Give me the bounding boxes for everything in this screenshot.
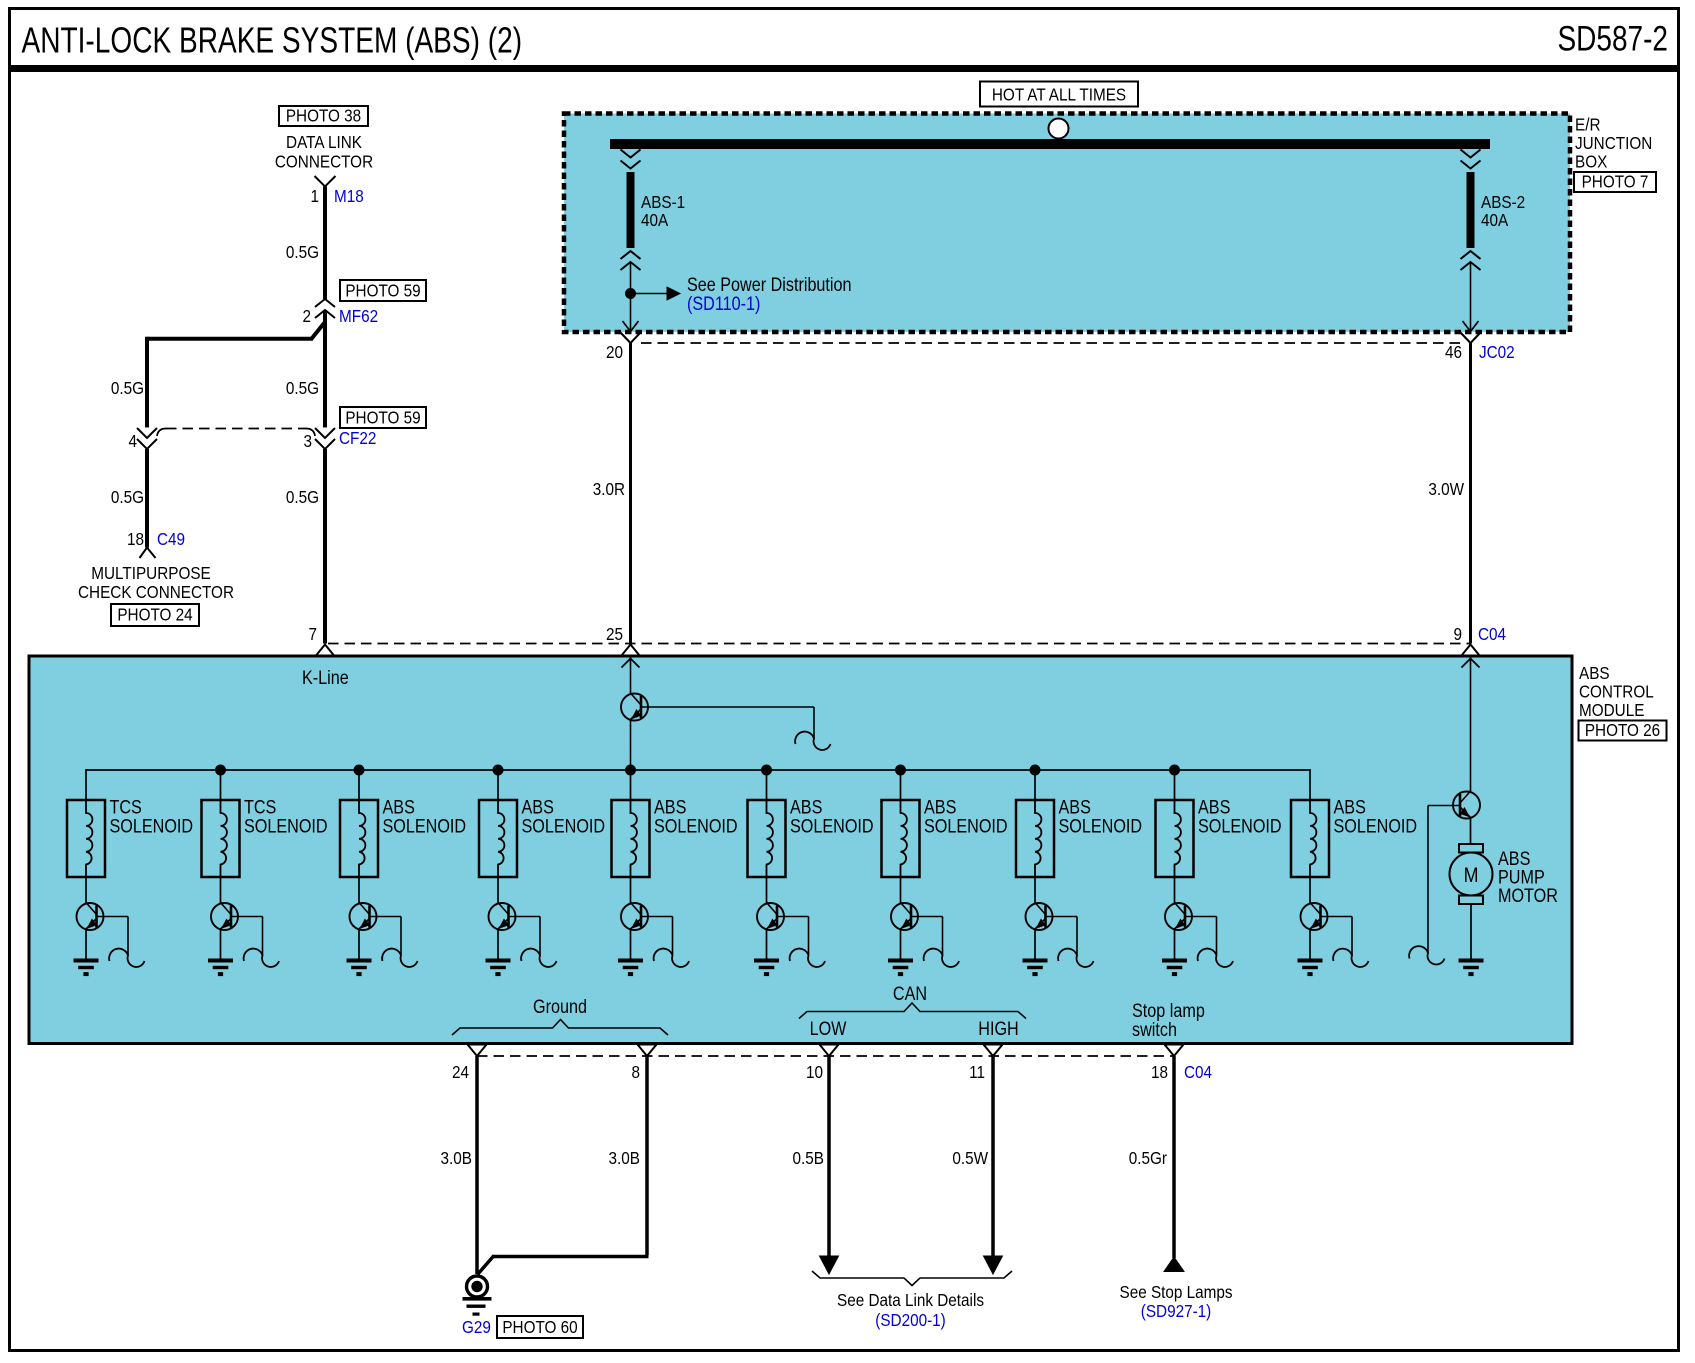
svg-text:(SD200-1): (SD200-1) [875, 1310, 946, 1330]
solenoid L7 ABS [882, 800, 920, 877]
wire branch horizontal [147, 337, 313, 341]
ground solenoid L6 [754, 959, 779, 977]
svg-text:SOLENOID: SOLENOID [1198, 815, 1282, 837]
module pin 24 exit triangle [468, 1045, 487, 1057]
wire bus tap to solenoid L6 [766, 770, 768, 800]
pin 1 label [310, 186, 319, 206]
connector JC02 pin 20 chevron [621, 333, 641, 344]
label CAN [893, 983, 927, 1005]
wire 0.5Gr pin 18 down [1172, 1056, 1176, 1258]
wire Q8 emitter to ground [1034, 929, 1036, 959]
label HIGH [978, 1018, 1018, 1040]
wave Q9 base [1198, 949, 1233, 967]
module pin 9 entry triangle [1462, 645, 1480, 656]
svg-text:9: 9 [1453, 624, 1462, 644]
wire solenoid L4 to transistor Q4 [497, 877, 499, 903]
label 3.0R [593, 479, 625, 499]
wire 0.5B pin 10 down [827, 1056, 831, 1258]
wire Q10 base lead [1321, 917, 1353, 956]
solenoid L6 ABS [748, 800, 786, 877]
wire 3.0B pin 24 to G29 [475, 1056, 479, 1274]
label ABS SOLENOID L9 [1198, 796, 1282, 837]
connector JC02 dashed line [641, 342, 1461, 344]
svg-text:SOLENOID: SOLENOID [244, 815, 328, 837]
solenoid L10 ABS [1291, 800, 1329, 877]
label ABS SOLENOID L6 [790, 796, 874, 837]
transistor Q1 [77, 903, 104, 931]
label 3.0B a [441, 1148, 472, 1168]
wire Q8 base lead [1046, 917, 1078, 956]
wire Q5 emitter to ground [630, 929, 632, 959]
pin 24 label [452, 1062, 469, 1082]
label HOT AT ALL TIMES [980, 82, 1138, 107]
svg-text:MF62: MF62 [339, 306, 378, 326]
wire Q12 base lead [1428, 806, 1460, 954]
svg-text:C04: C04 [1478, 624, 1506, 644]
transistor Q12 [1453, 791, 1480, 819]
svg-text:SD587-2: SD587-2 [1557, 18, 1668, 58]
transistor Q9 [1165, 903, 1192, 931]
brace data link wires [812, 1271, 1012, 1286]
label ABS SOLENOID L5 [654, 796, 738, 837]
wire Q3 emitter to ground [358, 929, 360, 959]
wire solenoid L2 to transistor Q2 [220, 877, 222, 903]
wire solenoid L3 to transistor Q3 [358, 877, 360, 903]
wire 0.5G M18 to MF62 [323, 187, 327, 300]
svg-text:See Data Link Details: See Data Link Details [837, 1290, 984, 1310]
svg-text:Ground: Ground [533, 996, 587, 1018]
solenoid L2 TCS [202, 800, 240, 877]
label MULTIPURPOSE CHECK CONNECTOR [78, 563, 234, 602]
svg-text:SOLENOID: SOLENOID [924, 815, 1008, 837]
label 0.5Gr [1129, 1148, 1168, 1168]
wire Q11 emitter to bus [630, 720, 632, 771]
wire ABS-2 exit arrow [1463, 321, 1479, 332]
label ABS PUMP MOTOR [1498, 848, 1558, 907]
connector C49 label [157, 529, 185, 549]
connector JC02 label [1479, 342, 1515, 362]
solenoid L9 ABS [1156, 800, 1194, 877]
label K-Line [302, 667, 349, 689]
svg-text:HOT AT ALL TIMES: HOT AT ALL TIMES [992, 84, 1126, 104]
pin 20 label [606, 342, 623, 362]
svg-text:SOLENOID: SOLENOID [383, 815, 467, 837]
label PHOTO 59 b [340, 407, 426, 428]
junction dot power distribution tap [626, 289, 636, 299]
motor M1 ABS pump motor [1450, 844, 1493, 904]
svg-text:40A: 40A [641, 210, 669, 230]
ABS control module box [29, 656, 1572, 1044]
svg-text:CHECK CONNECTOR: CHECK CONNECTOR [78, 582, 234, 602]
fuse ABS-2 connector chevrons bottom [1461, 251, 1481, 270]
solenoid L8 ABS [1016, 800, 1054, 877]
label See Power Distribution [687, 274, 852, 315]
pin 18 label C49 [127, 529, 144, 549]
wire solenoid L9 to transistor Q9 [1174, 877, 1176, 903]
wave Q8 base [1058, 949, 1093, 967]
ground motor [1459, 959, 1484, 977]
svg-text:PHOTO 38: PHOTO 38 [286, 105, 361, 125]
ground solenoid L5 [618, 959, 643, 977]
svg-text:1: 1 [310, 186, 319, 206]
pin 18 label C04 [1151, 1062, 1168, 1082]
solenoid L4 ABS [479, 800, 517, 877]
wire fuse ABS-1 to pin 20 [630, 262, 632, 332]
label ABS-1 40A [641, 192, 685, 230]
label 0.5B [793, 1148, 824, 1168]
wire Q4 emitter to ground [497, 929, 499, 959]
label Stop lamp switch [1132, 1000, 1205, 1041]
wave Q12 base [1409, 946, 1444, 964]
connector MF62 pin 2 chevrons [315, 299, 335, 318]
svg-text:0.5B: 0.5B [793, 1148, 824, 1168]
wire Q1 emitter to ground [85, 929, 87, 959]
label ABS SOLENOID L10 [1334, 796, 1418, 837]
ground solenoid L2 [208, 959, 233, 977]
wire motor to ground [1470, 904, 1472, 959]
svg-text:3: 3 [303, 431, 312, 451]
label DATA LINK CONNECTOR [275, 132, 373, 172]
pin 46 label [1445, 342, 1462, 362]
bus right bend [1309, 769, 1311, 800]
wire Q1 base lead [97, 917, 129, 956]
connector CF22 pin 3 chevrons [315, 428, 335, 449]
svg-text:M18: M18 [334, 186, 364, 206]
svg-text:CONTROL: CONTROL [1579, 681, 1654, 701]
label ABS SOLENOID L7 [924, 796, 1008, 837]
pin 7 label [308, 624, 317, 644]
svg-text:0.5G: 0.5G [111, 487, 144, 507]
transistor Q10 [1301, 903, 1328, 931]
connector CF22 label [339, 428, 376, 448]
svg-text:(SD110-1): (SD110-1) [687, 293, 760, 315]
wire solenoid L6 to transistor Q6 [766, 877, 768, 903]
label PHOTO 26 [1579, 720, 1667, 741]
svg-text:MOTOR: MOTOR [1498, 885, 1558, 907]
connector M18 label [334, 186, 364, 206]
pin 9 label [1453, 624, 1462, 644]
pin 2 label [302, 306, 311, 326]
svg-text:25: 25 [606, 624, 623, 644]
wave Q4 base [521, 949, 556, 967]
transistor Q4 [489, 903, 516, 931]
title separator bar [8, 65, 1680, 72]
wave Q2 base [244, 949, 279, 967]
ground solenoid L9 [1162, 959, 1187, 977]
wire pin 25 to transistor Q11 [630, 656, 632, 695]
svg-text:K-Line: K-Line [302, 667, 349, 689]
svg-text:PHOTO 60: PHOTO 60 [502, 1317, 577, 1337]
wave Q7 base [924, 949, 959, 967]
svg-text:7: 7 [308, 624, 317, 644]
svg-text:20: 20 [606, 342, 623, 362]
module pin 8 exit triangle [638, 1045, 657, 1057]
module pin 11 exit triangle [984, 1045, 1003, 1057]
label E/R JUNCTION BOX [1575, 114, 1652, 171]
label PHOTO 59 a [340, 280, 426, 301]
connector CF22 pin 4 chevrons [137, 428, 157, 449]
wire 3.0W pin 46 to pin 9 [1469, 343, 1472, 644]
svg-text:SOLENOID: SOLENOID [1334, 815, 1418, 837]
svg-text:LOW: LOW [810, 1018, 847, 1040]
svg-text:3.0B: 3.0B [441, 1148, 472, 1168]
ground G29 label [462, 1317, 491, 1337]
svg-text:MODULE: MODULE [1579, 700, 1644, 720]
svg-text:CF22: CF22 [339, 428, 376, 448]
connector C04 dashed line top [328, 643, 1470, 645]
ground solenoid L3 [347, 959, 372, 977]
wire branch diagonal at MF62 [312, 322, 326, 339]
svg-text:3.0R: 3.0R [593, 479, 625, 499]
svg-text:8: 8 [631, 1062, 640, 1082]
svg-text:PHOTO 7: PHOTO 7 [1582, 171, 1649, 191]
connector C04 label top [1478, 624, 1506, 644]
junction dot bus 8 [1170, 765, 1180, 775]
label ABS SOLENOID L3 [383, 796, 467, 837]
transistor Q5 [621, 903, 648, 931]
svg-text:0.5G: 0.5G [286, 242, 319, 262]
junction dot bus 3 [493, 765, 503, 775]
svg-text:ABS: ABS [1579, 663, 1610, 683]
wire Q4 base lead [509, 917, 541, 956]
pin 3 label [303, 431, 312, 451]
transistor Q3 [350, 903, 377, 931]
svg-text:24: 24 [452, 1062, 469, 1082]
junction dot bus 1 [216, 765, 226, 775]
svg-text:CAN: CAN [893, 983, 927, 1005]
svg-text:18: 18 [1151, 1062, 1168, 1082]
label TCS SOLENOID L1 [110, 796, 194, 837]
pin 11 label [969, 1062, 985, 1082]
label PHOTO 7 [1574, 171, 1656, 192]
power bus bar [610, 139, 1490, 149]
wire pin 9 to transistor Q12 [1470, 656, 1472, 792]
ground solenoid L10 [1298, 959, 1323, 977]
pin 9 chevron inside [1462, 659, 1480, 668]
wire Q9 base lead [1185, 917, 1217, 956]
wire bus tap to solenoid L7 [900, 770, 902, 800]
wire 0.5G CF22 to pin 7 [323, 449, 327, 644]
arrow wire 10 to data link [820, 1256, 839, 1274]
wire Q2 base lead [231, 917, 263, 956]
ground solenoid L4 [486, 959, 511, 977]
wire fuse ABS-2 to pin 46 [1470, 262, 1472, 332]
svg-text:0.5G: 0.5G [286, 487, 319, 507]
svg-text:SOLENOID: SOLENOID [790, 815, 874, 837]
label Ground [533, 996, 587, 1018]
wave Q5 base [654, 949, 689, 967]
wire solenoid L1 to transistor Q1 [85, 877, 87, 903]
module pin 18 exit triangle [1165, 1045, 1184, 1057]
pin 25 label [606, 624, 623, 644]
wave Q1 base [109, 949, 144, 967]
svg-text:SOLENOID: SOLENOID [110, 815, 194, 837]
transistor Q7 [891, 903, 918, 931]
label ABS SOLENOID L8 [1059, 796, 1143, 837]
wire 3.0R pin 20 to pin 25 [629, 343, 632, 644]
svg-text:2: 2 [302, 306, 311, 326]
wave Q11 base [795, 732, 830, 750]
svg-text:0.5Gr: 0.5Gr [1129, 1148, 1168, 1168]
wire MF62 down to CF22 pin 3 [323, 310, 327, 428]
brace CAN pins [799, 1003, 1026, 1019]
svg-text:DATA LINK: DATA LINK [286, 132, 362, 152]
svg-text:SOLENOID: SOLENOID [1059, 815, 1143, 837]
wire Q10 emitter to ground [1309, 929, 1311, 959]
label 0.5G c [286, 378, 319, 398]
wire Q5 base lead [641, 917, 673, 956]
solenoid L3 ABS [340, 800, 378, 877]
svg-text:PHOTO 59: PHOTO 59 [345, 407, 420, 427]
svg-text:10: 10 [806, 1062, 823, 1082]
label 0.5G d [111, 487, 144, 507]
connector MF62 label [339, 306, 378, 326]
module pin 25 entry triangle [622, 645, 640, 656]
svg-text:PHOTO 24: PHOTO 24 [117, 604, 192, 624]
svg-text:18: 18 [127, 529, 144, 549]
junction dot bus 6 [896, 765, 906, 775]
label ABS-2 40A [1481, 192, 1525, 230]
label TCS SOLENOID L2 [244, 796, 328, 837]
wire solenoid L5 to transistor Q5 [630, 877, 632, 903]
svg-text:0.5G: 0.5G [111, 378, 144, 398]
wire solenoid L10 to transistor Q10 [1309, 877, 1311, 903]
wire bus tap to solenoid L2 [220, 770, 222, 800]
label See Data Link Details [837, 1290, 984, 1330]
svg-text:40A: 40A [1481, 210, 1509, 230]
label 3.0W [1428, 479, 1464, 499]
svg-text:BOX: BOX [1575, 151, 1607, 171]
wire Q11 base lead [641, 707, 814, 739]
svg-text:3.0B: 3.0B [609, 1148, 640, 1168]
ground solenoid L1 [74, 959, 99, 977]
connector CF22 dashed link [157, 429, 315, 437]
svg-text:JC02: JC02 [1479, 342, 1515, 362]
label 3.0B b [609, 1148, 640, 1168]
svg-text:0.5G: 0.5G [286, 378, 319, 398]
svg-text:See Stop Lamps: See Stop Lamps [1119, 1282, 1232, 1302]
wire bus tap to solenoid L8 [1034, 770, 1036, 800]
svg-text:SOLENOID: SOLENOID [522, 815, 606, 837]
wave Q3 base [382, 949, 417, 967]
connector C04 dashed line bottom [477, 1055, 1174, 1057]
label ABS SOLENOID L4 [522, 796, 606, 837]
solenoid L5 ABS [612, 800, 650, 877]
wire Q6 emitter to ground [766, 929, 768, 959]
solenoid L1 TCS [67, 800, 105, 877]
wire Q12 emitter to motor [1470, 818, 1472, 845]
node hot feed circle [1049, 119, 1069, 139]
title ANTI-LOCK BRAKE SYSTEM (ABS) (2) [22, 20, 523, 60]
fuse ABS-2 connector chevrons top [1461, 150, 1481, 169]
svg-text:E/R: E/R [1575, 114, 1600, 134]
connector JC02 pin 46 chevron [1461, 333, 1481, 344]
label 0.5W [952, 1148, 988, 1168]
label 0.5G b [111, 378, 144, 398]
svg-text:G29: G29 [462, 1317, 491, 1337]
label See Stop Lamps [1119, 1282, 1232, 1321]
wire 0.5W pin 11 down [991, 1056, 995, 1258]
ground solenoid L7 [888, 959, 913, 977]
bus left bend [85, 769, 87, 800]
svg-text:PHOTO 26: PHOTO 26 [1585, 720, 1660, 740]
transistor Q2 [211, 903, 238, 931]
transistor Q11 [621, 693, 648, 721]
arrow wire 18 to stop lamps [1164, 1257, 1184, 1272]
wave Q10 base [1333, 949, 1368, 967]
junction dot bus 5 [762, 765, 772, 775]
module pin 7 entry triangle [316, 645, 334, 656]
svg-text:HIGH: HIGH [978, 1018, 1018, 1040]
svg-text:46: 46 [1445, 342, 1462, 362]
connector M18 pin 1 split [315, 176, 336, 187]
label PHOTO 24 [111, 604, 199, 626]
transistor Q6 [757, 903, 784, 931]
wire solenoid L7 to transistor Q7 [900, 877, 902, 903]
junction dot bus 7 [1030, 765, 1040, 775]
pin 10 label [806, 1062, 823, 1082]
svg-text:SOLENOID: SOLENOID [654, 815, 738, 837]
wire bus tap to solenoid L4 [497, 770, 499, 800]
wire branch left drop to CF22 pin 4 [145, 337, 149, 428]
transistor Q8 [1026, 903, 1053, 931]
wire bus tap to solenoid L5 [630, 770, 632, 800]
pin 4 label [128, 431, 137, 451]
wire Q7 emitter to ground [900, 929, 902, 959]
svg-text:JUNCTION: JUNCTION [1575, 133, 1652, 153]
svg-text:C49: C49 [157, 529, 185, 549]
svg-text:ANTI-LOCK BRAKE SYSTEM (ABS) (: ANTI-LOCK BRAKE SYSTEM (ABS) (2) [22, 20, 523, 60]
wire bus tap to solenoid L9 [1174, 770, 1176, 800]
svg-text:CONNECTOR: CONNECTOR [275, 151, 373, 171]
wire Q2 emitter to ground [220, 929, 222, 959]
wire ABS-1 exit arrow [623, 321, 639, 332]
label LOW [810, 1018, 847, 1040]
wire bus tap to solenoid L3 [358, 770, 360, 800]
svg-text:M: M [1464, 864, 1479, 888]
label ABS CONTROL MODULE [1579, 663, 1654, 720]
module pin 10 exit triangle [820, 1045, 839, 1057]
connector C49 split [140, 548, 156, 559]
junction dot bus 4 [626, 765, 636, 775]
fuse ABS-1 40A [627, 172, 635, 248]
doc number SD587-2 [1557, 18, 1668, 58]
wire pin 8 horizontal to G29 [478, 1256, 649, 1275]
wire Q6 base lead [777, 917, 809, 956]
wire Q3 base lead [370, 917, 402, 956]
wave Q6 base [790, 949, 825, 967]
brace ground pins [452, 1020, 668, 1036]
pin 25 chevron inside [622, 659, 640, 668]
svg-text:C04: C04 [1184, 1062, 1212, 1082]
wire 0.5G CF22 to C49 [145, 449, 149, 548]
svg-text:3.0W: 3.0W [1428, 479, 1464, 499]
ground solenoid L8 [1023, 959, 1048, 977]
E/R junction box [564, 114, 1570, 333]
wire 3.0B pin 8 down [645, 1056, 649, 1255]
module supply bus [86, 769, 1310, 771]
svg-text:PHOTO 59: PHOTO 59 [345, 280, 420, 300]
svg-text:switch: switch [1132, 1019, 1177, 1041]
svg-text:(SD927-1): (SD927-1) [1141, 1301, 1212, 1321]
wire Q7 base lead [911, 917, 943, 956]
fuse ABS-2 40A [1467, 172, 1475, 248]
label 0.5G a [286, 242, 319, 262]
svg-text:11: 11 [969, 1062, 985, 1082]
pin 8 label [631, 1062, 640, 1082]
fuse ABS-1 connector chevrons top [621, 150, 641, 169]
ground G29 symbol [463, 1276, 492, 1316]
